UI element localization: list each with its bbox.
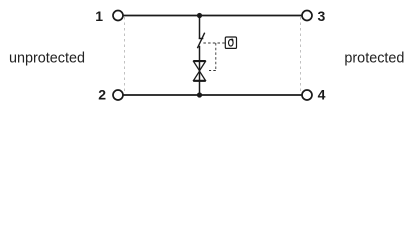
svg-text:2: 2 bbox=[98, 87, 106, 103]
svg-text:4: 4 bbox=[318, 87, 326, 103]
svg-text:3: 3 bbox=[318, 8, 326, 24]
svg-text:protected: protected bbox=[344, 51, 404, 67]
svg-text:1: 1 bbox=[95, 8, 103, 24]
svg-text:unprotected: unprotected bbox=[9, 51, 85, 67]
